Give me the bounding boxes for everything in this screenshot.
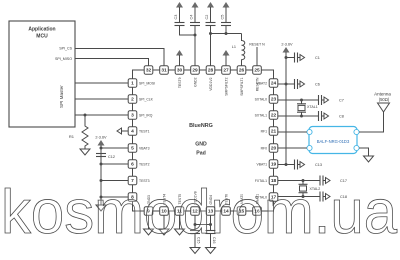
pin 5 VBAT3 <box>128 144 149 153</box>
pin 13 GND4 <box>206 195 215 215</box>
inductor L1 <box>232 34 245 66</box>
pin 2 SPI_CLK <box>128 95 153 104</box>
svg-text:TEST1: TEST1 <box>139 130 150 134</box>
wire pin 12 down <box>194 215 196 230</box>
pin 20 RF0 <box>261 144 278 153</box>
capacitor C2 <box>205 2 216 26</box>
wire SPI_CS MCU to pin 31 <box>75 49 164 66</box>
wire SPI_MOSI MCU to pin 1 <box>75 82 128 84</box>
svg-text:RF1: RF1 <box>261 130 268 134</box>
svg-text:RF0: RF0 <box>261 147 268 151</box>
svg-text:C12: C12 <box>108 155 115 159</box>
wire supply rail left <box>100 148 102 205</box>
capacitor C3 <box>174 2 185 26</box>
pin 10 TEST4 <box>160 194 169 215</box>
wire C2 rail to L1 <box>210 26 212 66</box>
svg-text:Antenna: Antenna <box>374 92 391 97</box>
wire SPI_MISO MCU to pin 32 <box>75 59 149 66</box>
pin 4 TEST1 <box>128 127 149 136</box>
wire SPI_IRQ MCU to pin 3 <box>75 114 128 116</box>
power flag above pin 30 <box>176 50 183 56</box>
svg-text:R1: R1 <box>69 134 75 139</box>
svg-text:SMPSFILT2: SMPSFILT2 <box>225 77 229 95</box>
svg-text:31: 31 <box>161 68 167 74</box>
pin 14 TEST6 <box>222 194 231 215</box>
node junction R1 on SPI_IRQ <box>84 114 87 117</box>
svg-text:C4: C4 <box>190 15 194 20</box>
svg-text:C5: C5 <box>221 15 225 20</box>
ground C16 <box>206 248 216 254</box>
svg-text:19: 19 <box>271 162 277 168</box>
svg-text:RESETN: RESETN <box>256 77 260 91</box>
svg-text:27: 27 <box>223 68 229 74</box>
svg-text:C7: C7 <box>339 99 344 103</box>
power flag above pin 27 <box>223 50 230 56</box>
svg-text:BlueNRG: BlueNRG <box>189 123 213 129</box>
svg-text:(50Ω): (50Ω) <box>379 97 390 102</box>
pin 17 FXTAL0 <box>255 193 278 202</box>
pin 18 FXTAL1 <box>255 176 278 185</box>
svg-text:GND2: GND2 <box>194 77 198 87</box>
svg-text:SMPSFILT1: SMPSFILT1 <box>240 77 244 95</box>
wire pin7 tie <box>100 179 103 182</box>
svg-text:30: 30 <box>177 68 183 74</box>
svg-text:C2: C2 <box>205 15 209 20</box>
ground bottom pin <box>179 215 181 229</box>
capacitor C8 <box>319 111 344 121</box>
crystal XTAL1 <box>297 100 318 116</box>
pin 3 SPI_IRQ <box>128 111 153 120</box>
wire balun to antenna <box>359 112 383 132</box>
wire pin 24 to rail <box>278 83 286 85</box>
capacitor C12 <box>96 154 115 160</box>
svg-text:VBAT3: VBAT3 <box>139 147 150 151</box>
svg-text:kosmodrom.ua: kosmodrom.ua <box>1 178 397 247</box>
svg-text:C8: C8 <box>339 115 344 119</box>
wire pin 21 RF1 to balun <box>278 131 307 133</box>
svg-text:25: 25 <box>254 68 260 74</box>
svg-text:C13: C13 <box>315 163 322 167</box>
svg-text:MCU: MCU <box>36 34 48 40</box>
wire pin 20 RF0 to balun <box>278 147 307 149</box>
power flag 2-3.6V right <box>281 43 293 56</box>
svg-text:3: 3 <box>131 113 134 119</box>
svg-text:TEST2: TEST2 <box>139 163 150 167</box>
svg-text:GND: GND <box>195 142 207 148</box>
ground bottom pin <box>163 215 165 229</box>
wire SPI_CLK MCU to pin 2 <box>75 98 128 100</box>
svg-text:C6: C6 <box>315 83 320 87</box>
IC U1 BlueNRG body <box>133 70 274 211</box>
svg-text:23: 23 <box>271 97 277 103</box>
svg-text:4: 4 <box>131 129 134 135</box>
wire pin 18 xtal2 line <box>278 180 320 182</box>
pin 26 SMPSFILT1 <box>237 66 246 96</box>
svg-text:32: 32 <box>146 68 152 74</box>
wire link pins 12-13 <box>195 224 211 226</box>
svg-text:20: 20 <box>271 146 277 152</box>
node pin5 supply <box>100 147 103 150</box>
resistor R1 pulldown <box>69 115 88 149</box>
capacitor C7 <box>319 95 344 105</box>
wire balun to ground <box>359 148 368 156</box>
svg-text:2-3.6V: 2-3.6V <box>95 136 107 140</box>
svg-text:C3: C3 <box>174 15 178 20</box>
svg-text:SPI_MISO: SPI_MISO <box>55 57 72 61</box>
capacitor C13 <box>286 160 322 170</box>
svg-text:SXTAL1: SXTAL1 <box>255 114 267 118</box>
svg-text:SPI_CLK: SPI_CLK <box>139 98 154 102</box>
pin 25 RESETN <box>253 66 262 92</box>
svg-text:TEST9: TEST9 <box>178 77 182 88</box>
net RESETN to pin 25 <box>249 43 265 66</box>
capacitor C17 <box>320 176 347 186</box>
wire pin8 tie <box>100 196 103 199</box>
svg-text:5: 5 <box>131 146 134 152</box>
balun U3 BALF-NRG-01D3 <box>307 127 359 154</box>
ground below C12 rail <box>96 205 106 211</box>
svg-text:21: 21 <box>271 129 277 135</box>
svg-text:BALF-NRG-01D3: BALF-NRG-01D3 <box>317 139 350 144</box>
capacitor C18 <box>320 192 347 202</box>
svg-text:29: 29 <box>192 68 198 74</box>
svg-text:Application: Application <box>28 27 55 33</box>
ground below R1 <box>80 149 90 155</box>
pin 7 TEST3 <box>128 176 149 185</box>
capacitor C6 <box>286 79 320 89</box>
capacitor C15 <box>190 231 201 248</box>
pin 30 TEST9 <box>175 66 184 88</box>
wire pin 13 down <box>210 215 212 230</box>
pin 9 GND3 <box>144 195 153 215</box>
svg-text:2-3.6V: 2-3.6V <box>281 43 293 47</box>
wire pin 23 xtal line <box>278 99 319 101</box>
wire C3 to C4 rail <box>180 26 196 36</box>
pin 15 ANAT0 <box>237 194 246 216</box>
svg-text:VDD1V2: VDD1V2 <box>209 77 213 90</box>
capacitor C1 <box>285 56 288 59</box>
wire pin 17 xtal2 line <box>278 196 320 198</box>
pin 19 VBAT1 <box>257 160 278 169</box>
svg-text:24: 24 <box>271 81 277 87</box>
pin 23 SXTAL0 <box>255 95 278 104</box>
svg-text:28: 28 <box>208 68 214 74</box>
wire pin 22 xtal line <box>278 115 319 117</box>
wire C4 down to pin 29 <box>194 34 197 37</box>
svg-text:2: 2 <box>131 97 134 103</box>
net flag TEST1 pin 4 <box>117 128 122 134</box>
capacitor C5 <box>221 2 232 26</box>
pin 1 SPI_MOSI <box>128 79 155 88</box>
svg-text:C1: C1 <box>315 56 320 60</box>
pin 31 SPI <box>160 66 169 75</box>
svg-text:6: 6 <box>131 162 134 168</box>
capacitor C4 <box>190 2 201 26</box>
pin 12 VDD1V8 <box>191 191 200 215</box>
pin 24 VBAT2 <box>257 79 278 88</box>
ground C15 <box>190 248 200 254</box>
svg-text:22: 22 <box>271 113 277 119</box>
svg-text:SPI Master: SPI Master <box>59 85 64 108</box>
pin 27 SMPSFILT2 <box>222 66 231 96</box>
svg-text:26: 26 <box>239 68 245 74</box>
ground balun <box>364 156 374 162</box>
ground bottom pin <box>148 215 150 229</box>
svg-text:RESET N: RESET N <box>249 43 265 47</box>
crystal XTAL2 <box>299 181 321 197</box>
wire C5 joins rail <box>225 26 227 34</box>
pin 22 SXTAL1 <box>255 111 278 120</box>
svg-text:SPI_CS: SPI_CS <box>59 47 72 51</box>
pin 11 TEST5 <box>175 194 184 215</box>
pin 16 ANAT1 <box>253 194 262 216</box>
svg-text:SPI_IRQ: SPI_IRQ <box>139 114 153 118</box>
svg-text:XTAL1: XTAL1 <box>307 105 318 109</box>
wire pin 19 to rail <box>278 164 286 166</box>
antenna (50 ohm) <box>374 92 391 113</box>
svg-text:1: 1 <box>131 81 134 87</box>
capacitor C16 <box>206 231 217 248</box>
pin 21 RF1 <box>261 127 278 136</box>
wire pin6 tie <box>100 163 103 166</box>
wire supply rail right <box>285 55 287 165</box>
svg-text:L1: L1 <box>232 45 236 49</box>
pin 32 SPI <box>144 66 153 75</box>
pin 29 GND2 <box>191 66 200 87</box>
Application MCU box U2 <box>9 21 75 127</box>
pin 8 NC <box>128 193 137 202</box>
power flag 2-3.6V left <box>95 136 107 149</box>
svg-text:VBAT1: VBAT1 <box>257 163 268 167</box>
svg-text:Pad: Pad <box>196 151 206 157</box>
pin 6 TEST2 <box>128 160 149 169</box>
pin 28 VDD1V2 <box>206 66 215 91</box>
svg-text:SXTAL0: SXTAL0 <box>255 98 267 102</box>
svg-text:SPI_MOSI: SPI_MOSI <box>139 82 155 86</box>
